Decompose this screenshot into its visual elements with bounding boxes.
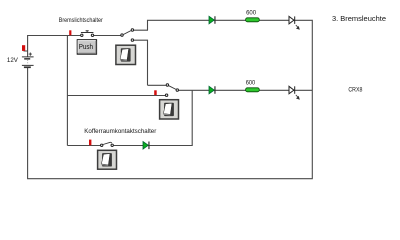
svg-text:600: 600 <box>246 80 256 87</box>
svg-text:12V: 12V <box>7 57 19 64</box>
svg-text:3. Bremsleuchte: 3. Bremsleuchte <box>332 16 386 23</box>
svg-text:Kofferraumkontaktschalter: Kofferraumkontaktschalter <box>84 128 157 135</box>
svg-text:Bremslichtschalter: Bremslichtschalter <box>59 17 104 24</box>
svg-text:Push: Push <box>79 42 93 51</box>
svg-text:CRX8: CRX8 <box>348 87 362 94</box>
svg-text:600: 600 <box>246 10 256 17</box>
